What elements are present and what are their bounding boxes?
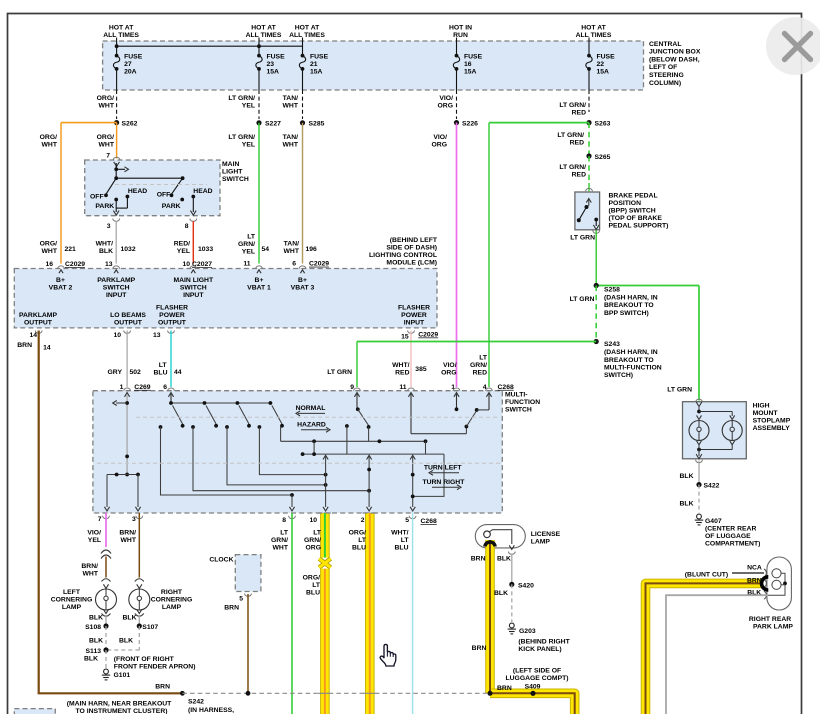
- svg-text:7: 7: [106, 152, 110, 159]
- svg-text:BRN: BRN: [155, 683, 170, 690]
- svg-text:LT GRN/: LT GRN/: [557, 132, 584, 139]
- svg-text:22: 22: [597, 61, 605, 68]
- svg-text:ASSEMBLY: ASSEMBLY: [753, 425, 791, 432]
- svg-text:STOPLAMP: STOPLAMP: [753, 417, 791, 424]
- svg-text:RED: RED: [572, 110, 586, 117]
- svg-text:LT: LT: [280, 530, 289, 537]
- svg-text:196: 196: [306, 246, 318, 253]
- svg-text:TURN LEFT: TURN LEFT: [424, 464, 463, 471]
- svg-text:LT: LT: [312, 582, 321, 589]
- svg-text:HAZARD: HAZARD: [297, 422, 326, 429]
- svg-text:(BEHIND RIGHT: (BEHIND RIGHT: [518, 638, 570, 645]
- svg-text:502: 502: [130, 369, 142, 376]
- svg-text:ALL TIMES: ALL TIMES: [289, 32, 325, 39]
- svg-text:(FRONT OF RIGHT: (FRONT OF RIGHT: [114, 656, 175, 663]
- svg-text:BRN: BRN: [471, 556, 486, 563]
- svg-text:ORG/: ORG/: [40, 241, 57, 248]
- svg-text:WHT/: WHT/: [96, 241, 113, 248]
- svg-text:LO BEAMS: LO BEAMS: [110, 312, 146, 319]
- svg-text:WHT/: WHT/: [392, 362, 409, 369]
- svg-text:ORG/: ORG/: [40, 134, 57, 141]
- svg-text:LEFT OF: LEFT OF: [649, 64, 677, 71]
- svg-text:HIGH: HIGH: [753, 402, 770, 409]
- svg-text:221: 221: [65, 246, 77, 253]
- svg-text:BLK: BLK: [89, 638, 103, 645]
- svg-text:CLOCK: CLOCK: [209, 557, 233, 564]
- svg-text:HEAD: HEAD: [193, 188, 212, 195]
- svg-text:GRN/: GRN/: [304, 537, 321, 544]
- svg-text:YEL: YEL: [88, 537, 101, 544]
- svg-text:LT GRN/: LT GRN/: [559, 164, 586, 171]
- svg-text:BLK: BLK: [123, 615, 137, 622]
- svg-text:VIO/: VIO/: [87, 530, 101, 537]
- svg-text:C2029: C2029: [65, 261, 85, 268]
- svg-text:SWITCH): SWITCH): [604, 372, 633, 379]
- svg-text:LT: LT: [159, 362, 168, 369]
- svg-text:LT GRN/: LT GRN/: [559, 102, 586, 109]
- svg-text:WHT: WHT: [99, 142, 115, 149]
- svg-text:FRONT FENDER APRON): FRONT FENDER APRON): [114, 663, 196, 670]
- svg-text:PARK LAMP: PARK LAMP: [753, 623, 793, 630]
- svg-text:G101: G101: [114, 672, 131, 679]
- svg-text:(LEFT SIDE OF: (LEFT SIDE OF: [513, 667, 561, 674]
- svg-text:14: 14: [43, 345, 51, 352]
- svg-text:ALL TIMES: ALL TIMES: [246, 32, 282, 39]
- svg-text:ORG: ORG: [432, 142, 447, 149]
- svg-text:1: 1: [120, 384, 124, 391]
- svg-text:TAN/: TAN/: [283, 95, 298, 102]
- svg-text:BLK: BLK: [99, 248, 113, 255]
- svg-text:S113: S113: [86, 648, 102, 655]
- svg-text:S265: S265: [595, 154, 611, 161]
- svg-text:11: 11: [399, 384, 406, 391]
- svg-text:RED: RED: [572, 172, 586, 179]
- svg-text:LT: LT: [358, 537, 367, 544]
- svg-text:MULTI-: MULTI-: [505, 392, 528, 399]
- svg-text:SIDE OF DASH): SIDE OF DASH): [386, 245, 437, 252]
- svg-text:BREAKOUT TO: BREAKOUT TO: [604, 302, 654, 309]
- svg-text:WHT/: WHT/: [391, 530, 408, 537]
- svg-text:13: 13: [105, 261, 113, 268]
- svg-text:21: 21: [310, 61, 318, 68]
- svg-text:PARK: PARK: [95, 203, 114, 210]
- svg-text:LUGGAGE COMPT): LUGGAGE COMPT): [505, 675, 568, 682]
- svg-text:BRN/: BRN/: [119, 530, 136, 537]
- svg-text:B+: B+: [255, 277, 264, 284]
- svg-text:ORG: ORG: [306, 545, 321, 552]
- svg-text:(DASH HARN, IN: (DASH HARN, IN: [604, 295, 658, 302]
- svg-text:VBAT 3: VBAT 3: [291, 285, 315, 292]
- svg-text:FUSE: FUSE: [310, 53, 329, 60]
- svg-text:10: 10: [182, 261, 190, 268]
- svg-text:BLU: BLU: [306, 590, 320, 597]
- svg-text:(TOP OF BRAKE: (TOP OF BRAKE: [609, 215, 663, 222]
- svg-text:LICENSE: LICENSE: [531, 531, 561, 538]
- svg-text:LT: LT: [247, 234, 256, 241]
- svg-text:S420: S420: [518, 583, 534, 590]
- svg-text:C2029: C2029: [418, 332, 438, 339]
- svg-text:TURN RIGHT: TURN RIGHT: [422, 479, 465, 486]
- svg-text:ALL TIMES: ALL TIMES: [576, 32, 612, 39]
- svg-text:CENTRAL: CENTRAL: [649, 41, 681, 48]
- svg-text:B+: B+: [56, 277, 65, 284]
- svg-text:FUSE: FUSE: [464, 53, 483, 60]
- svg-text:ORG: ORG: [441, 370, 456, 377]
- svg-text:OUTPUT: OUTPUT: [158, 320, 187, 327]
- svg-text:HOT AT: HOT AT: [109, 24, 134, 31]
- svg-text:HOT IN: HOT IN: [449, 24, 472, 31]
- svg-text:6: 6: [163, 384, 167, 391]
- svg-text:BPP SWITCH): BPP SWITCH): [604, 310, 649, 317]
- svg-text:15A: 15A: [597, 68, 610, 75]
- svg-text:8: 8: [282, 517, 286, 524]
- svg-text:FUSE: FUSE: [124, 53, 143, 60]
- svg-text:11: 11: [243, 261, 250, 268]
- svg-text:BRN: BRN: [497, 685, 512, 692]
- svg-text:C268: C268: [421, 518, 437, 525]
- svg-text:8: 8: [185, 223, 189, 230]
- svg-text:WHT: WHT: [273, 545, 289, 552]
- svg-text:BLU: BLU: [154, 370, 168, 377]
- svg-text:YEL: YEL: [177, 248, 190, 255]
- svg-text:LT GRN: LT GRN: [570, 296, 595, 303]
- svg-text:TAN/: TAN/: [284, 241, 299, 248]
- svg-text:13: 13: [153, 332, 161, 339]
- svg-text:MULTI-FUNCTION: MULTI-FUNCTION: [604, 365, 662, 372]
- svg-text:LIGHTING CONTROL: LIGHTING CONTROL: [369, 252, 437, 259]
- svg-text:BRN: BRN: [472, 645, 487, 652]
- svg-text:20A: 20A: [124, 68, 137, 75]
- svg-text:3: 3: [107, 223, 111, 230]
- svg-text:VBAT 1: VBAT 1: [247, 285, 271, 292]
- svg-text:BLU: BLU: [352, 545, 366, 552]
- svg-text:S285: S285: [309, 121, 325, 128]
- svg-text:BLK: BLK: [84, 656, 98, 663]
- svg-text:INPUT: INPUT: [404, 320, 425, 327]
- svg-text:G203: G203: [519, 628, 536, 635]
- svg-text:SWITCH: SWITCH: [505, 407, 532, 414]
- svg-text:S227: S227: [265, 121, 281, 128]
- svg-text:LT: LT: [401, 537, 410, 544]
- svg-text:S108: S108: [85, 624, 101, 631]
- svg-text:23: 23: [267, 61, 275, 68]
- svg-text:RIGHT: RIGHT: [161, 589, 183, 596]
- svg-text:HEAD: HEAD: [128, 188, 147, 195]
- svg-text:WHT: WHT: [283, 142, 299, 149]
- svg-text:FLASHER: FLASHER: [156, 305, 188, 312]
- svg-text:(BPP) SWITCH: (BPP) SWITCH: [609, 207, 656, 214]
- svg-text:OUTPUT: OUTPUT: [24, 320, 53, 327]
- svg-text:15A: 15A: [267, 68, 280, 75]
- svg-text:OUTPUT: OUTPUT: [114, 320, 143, 327]
- svg-text:BRN: BRN: [224, 605, 239, 612]
- svg-text:GRY: GRY: [108, 369, 123, 376]
- svg-text:POSITION: POSITION: [609, 200, 642, 207]
- svg-text:S263: S263: [595, 120, 611, 127]
- svg-text:C268: C268: [498, 384, 514, 391]
- svg-text:15A: 15A: [310, 68, 323, 75]
- svg-text:27: 27: [124, 61, 132, 68]
- svg-text:1032: 1032: [121, 246, 136, 253]
- svg-text:CORNERING: CORNERING: [51, 597, 93, 604]
- svg-text:TO INSTRUMENT CLUSTER): TO INSTRUMENT CLUSTER): [75, 708, 167, 714]
- svg-text:(BELOW DASH,: (BELOW DASH,: [649, 56, 700, 63]
- svg-text:LT GRN: LT GRN: [327, 369, 352, 376]
- svg-text:10: 10: [309, 517, 317, 524]
- svg-text:16: 16: [464, 61, 472, 68]
- svg-text:(BLUNT CUT): (BLUNT CUT): [685, 571, 728, 578]
- svg-text:FUNCTION: FUNCTION: [505, 399, 540, 406]
- svg-text:MAIN: MAIN: [222, 161, 239, 168]
- svg-text:GRN/: GRN/: [271, 537, 288, 544]
- svg-text:(CENTER REAR: (CENTER REAR: [705, 526, 756, 533]
- svg-text:BRAKE PEDAL: BRAKE PEDAL: [609, 192, 658, 199]
- svg-text:C269: C269: [134, 384, 150, 391]
- svg-text:ORG/: ORG/: [349, 530, 366, 537]
- svg-text:BLK: BLK: [497, 556, 511, 563]
- svg-text:BREAKOUT TO: BREAKOUT TO: [604, 357, 654, 364]
- svg-text:FLASHER: FLASHER: [398, 305, 430, 312]
- svg-text:S107: S107: [142, 624, 158, 631]
- svg-text:54: 54: [262, 246, 270, 253]
- svg-text:VIO/: VIO/: [439, 95, 453, 102]
- svg-text:SWITCH: SWITCH: [180, 285, 207, 292]
- svg-text:LAMP: LAMP: [162, 604, 182, 611]
- svg-text:385: 385: [415, 366, 427, 373]
- svg-text:(IN HARNESS,: (IN HARNESS,: [188, 707, 234, 714]
- svg-text:BLK: BLK: [680, 473, 694, 480]
- svg-text:HOT AT: HOT AT: [295, 24, 320, 31]
- svg-text:ORG/: ORG/: [303, 575, 320, 582]
- svg-text:WHT: WHT: [283, 103, 299, 110]
- svg-text:HOT AT: HOT AT: [251, 24, 276, 31]
- svg-text:(DASH HARN, IN: (DASH HARN, IN: [604, 349, 658, 356]
- svg-text:LT GRN: LT GRN: [667, 387, 692, 394]
- svg-text:RIGHT REAR: RIGHT REAR: [749, 616, 791, 623]
- svg-text:LT: LT: [479, 355, 488, 362]
- svg-text:S258: S258: [604, 287, 620, 294]
- svg-text:BLK: BLK: [89, 615, 103, 622]
- svg-text:5: 5: [239, 596, 243, 603]
- svg-text:3: 3: [132, 516, 136, 523]
- svg-text:WHT: WHT: [42, 248, 58, 255]
- svg-text:STEERING: STEERING: [649, 72, 684, 79]
- svg-text:PARKLAMP: PARKLAMP: [97, 277, 135, 284]
- svg-text:44: 44: [174, 369, 182, 376]
- svg-text:WHT: WHT: [99, 103, 115, 110]
- svg-text:COMPARTMENT): COMPARTMENT): [705, 541, 760, 548]
- svg-text:BRN: BRN: [747, 577, 762, 584]
- svg-text:LT GRN/: LT GRN/: [228, 134, 255, 141]
- svg-text:ORG: ORG: [438, 103, 453, 110]
- svg-text:POWER: POWER: [159, 312, 185, 319]
- svg-text:WHT: WHT: [83, 571, 99, 578]
- svg-text:S242: S242: [188, 699, 204, 706]
- svg-text:BLU: BLU: [395, 545, 409, 552]
- svg-text:LEFT: LEFT: [63, 589, 81, 596]
- svg-text:BLK: BLK: [494, 590, 508, 597]
- svg-text:LT GRN: LT GRN: [570, 235, 595, 242]
- svg-text:S226: S226: [462, 120, 478, 127]
- svg-text:RED: RED: [395, 370, 409, 377]
- svg-text:G407: G407: [705, 518, 722, 525]
- svg-text:TAN/: TAN/: [283, 134, 298, 141]
- svg-text:FUSE: FUSE: [597, 53, 616, 60]
- svg-text:OFF: OFF: [157, 191, 171, 198]
- svg-text:1033: 1033: [198, 246, 213, 253]
- svg-text:OFF: OFF: [90, 193, 104, 200]
- svg-text:RED: RED: [473, 370, 487, 377]
- svg-text:LAMP: LAMP: [531, 538, 551, 545]
- svg-text:PEDAL SUPPORT): PEDAL SUPPORT): [609, 222, 669, 229]
- svg-text:S243: S243: [604, 341, 620, 348]
- svg-text:INPUT: INPUT: [183, 292, 204, 299]
- svg-text:YEL: YEL: [242, 142, 255, 149]
- svg-text:(MAIN HARN, NEAR BREAKOUT: (MAIN HARN, NEAR BREAKOUT: [67, 700, 172, 707]
- svg-text:NCA: NCA: [747, 565, 762, 572]
- svg-text:LAMP: LAMP: [62, 604, 82, 611]
- svg-text:VIO/: VIO/: [443, 362, 457, 369]
- svg-text:PARKLAMP: PARKLAMP: [19, 312, 57, 319]
- svg-text:HOT AT: HOT AT: [581, 24, 606, 31]
- svg-text:BLK: BLK: [119, 638, 133, 645]
- svg-text:MODULE (LCM): MODULE (LCM): [386, 260, 437, 267]
- svg-text:PARK: PARK: [162, 203, 181, 210]
- svg-text:KICK PANEL): KICK PANEL): [518, 646, 561, 653]
- svg-text:RED/: RED/: [174, 241, 190, 248]
- svg-text:LIGHT: LIGHT: [222, 168, 243, 175]
- svg-text:WHT: WHT: [121, 537, 137, 544]
- svg-text:RED: RED: [570, 140, 584, 147]
- svg-text:WHT: WHT: [42, 142, 58, 149]
- svg-text:WHT: WHT: [284, 248, 300, 255]
- svg-text:15: 15: [401, 334, 409, 341]
- svg-text:LT GRN/: LT GRN/: [228, 95, 255, 102]
- svg-text:S409: S409: [525, 684, 541, 691]
- svg-text:POWER: POWER: [401, 312, 427, 319]
- svg-text:(BEHIND LEFT: (BEHIND LEFT: [390, 237, 438, 244]
- svg-text:ORG/: ORG/: [97, 134, 114, 141]
- svg-text:S262: S262: [122, 120, 138, 127]
- svg-text:GRN/: GRN/: [470, 362, 487, 369]
- svg-text:VBAT 2: VBAT 2: [49, 285, 73, 292]
- svg-text:BLK: BLK: [680, 500, 694, 507]
- svg-text:10: 10: [113, 332, 121, 339]
- svg-text:16: 16: [45, 261, 53, 268]
- svg-text:B+: B+: [298, 277, 307, 284]
- svg-text:SWITCH: SWITCH: [222, 176, 249, 183]
- svg-text:15A: 15A: [464, 68, 477, 75]
- svg-text:FUSE: FUSE: [267, 53, 286, 60]
- svg-text:OF LUGGAGE: OF LUGGAGE: [705, 533, 751, 540]
- svg-text:MAIN LIGHT: MAIN LIGHT: [173, 277, 213, 284]
- svg-text:CORNERING: CORNERING: [151, 597, 193, 604]
- svg-text:LT: LT: [313, 530, 322, 537]
- svg-text:JUNCTION BOX: JUNCTION BOX: [649, 49, 701, 56]
- svg-text:RUN: RUN: [453, 32, 468, 39]
- svg-text:BRN: BRN: [17, 342, 32, 349]
- svg-text:VIO/: VIO/: [433, 134, 447, 141]
- svg-text:ALL TIMES: ALL TIMES: [103, 32, 139, 39]
- svg-text:ORG/: ORG/: [97, 95, 114, 102]
- svg-text:MOUNT: MOUNT: [753, 410, 779, 417]
- svg-text:YEL: YEL: [242, 103, 255, 110]
- svg-text:2: 2: [361, 517, 365, 524]
- svg-text:YEL: YEL: [242, 249, 255, 256]
- svg-text:GRN/: GRN/: [238, 241, 255, 248]
- svg-text:BRN/: BRN/: [81, 563, 98, 570]
- svg-text:INPUT: INPUT: [106, 292, 127, 299]
- svg-text:S422: S422: [704, 483, 720, 490]
- svg-text:C2027: C2027: [192, 261, 212, 268]
- svg-text:5: 5: [405, 517, 409, 524]
- svg-text:7: 7: [98, 516, 102, 523]
- svg-text:SWITCH: SWITCH: [103, 285, 130, 292]
- svg-text:COLUMN): COLUMN): [649, 80, 681, 87]
- svg-text:C2029: C2029: [309, 261, 329, 268]
- svg-text:6: 6: [292, 261, 296, 268]
